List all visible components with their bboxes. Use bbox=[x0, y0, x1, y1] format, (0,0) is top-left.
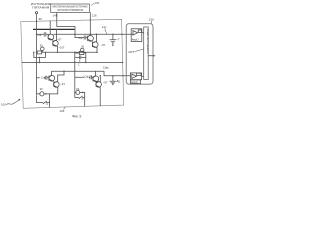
terminal 96 bbox=[35, 12, 37, 14]
junction (74.8,52.3) bbox=[74, 52, 76, 54]
capacitor 8 to ground bbox=[110, 76, 116, 84]
svg-text:~10Т: ~10Т bbox=[59, 45, 65, 49]
row2 collector rail bbox=[52, 71, 104, 76]
resistor box 10 bbox=[75, 52, 80, 54]
cell 4 : transistor VT2 bbox=[96, 82, 102, 88]
svg-text:ПИТАНИЯ: ПИТАНИЯ bbox=[32, 5, 49, 9]
junction (96.5,34.2) bbox=[96, 33, 98, 35]
svg-text:СИГНАЛОВ УПРАВЛЕНИЯ: СИГНАЛОВ УПРАВЛЕНИЯ bbox=[57, 9, 83, 12]
junction (39.6,57.5) bbox=[39, 57, 40, 58]
junction (39.6,62.5) bbox=[39, 62, 40, 63]
power source label bbox=[31, 2, 51, 9]
junction (112.9,34.2) bbox=[112, 33, 114, 35]
junction dots bbox=[33, 20, 124, 95]
junction (64,71.2) bbox=[63, 70, 65, 72]
svg-text:92: 92 bbox=[40, 87, 43, 91]
cell 3 : transistor VT bbox=[54, 82, 60, 88]
emitter bus row1 bbox=[37, 51, 98, 53]
svg-text:Сф: Сф bbox=[84, 75, 89, 79]
svg-text:126: 126 bbox=[92, 14, 97, 18]
resistor box K (series in bus) bbox=[37, 51, 41, 54]
svg-text:14у: 14у bbox=[102, 25, 107, 29]
bypass loop bbox=[34, 52, 46, 57]
divider branch vertical bbox=[74, 52, 76, 71]
svg-text:АмрО: АмрО bbox=[131, 81, 138, 84]
svg-text:Фиг. 9: Фиг. 9 bbox=[72, 115, 81, 119]
wire: amp B feed bbox=[104, 75, 130, 77]
svg-text:~9Т: ~9Т bbox=[101, 43, 106, 47]
mid rail drop bbox=[74, 71, 76, 94]
svg-text:134: 134 bbox=[94, 1, 99, 5]
junction (36.5,29.4) bbox=[36, 29, 38, 31]
junction (45.9,93.9) bbox=[45, 93, 47, 95]
cell 1 : transistor 97 bbox=[48, 34, 54, 40]
junction (112.9,75.8) bbox=[112, 75, 114, 77]
svg-text:100: 100 bbox=[1, 103, 6, 107]
junction (36.5,62.5) bbox=[36, 62, 38, 64]
junction (85.8,62.5) bbox=[85, 62, 86, 63]
junction (50.2,29.4) bbox=[49, 29, 51, 31]
svg-text:~97: ~97 bbox=[57, 37, 62, 41]
svg-text:~9Т: ~9Т bbox=[103, 80, 108, 84]
junction (75,34.2) bbox=[74, 33, 76, 35]
signal source box 134 bbox=[51, 4, 90, 13]
svg-text:МУХ: МУХ bbox=[129, 50, 135, 54]
svg-text:КОММУТАТОР КАНАЛОВ: КОММУТАТОР КАНАЛОВ bbox=[146, 29, 149, 54]
junction (36.5,21.25) bbox=[36, 21, 37, 22]
supply rail bbox=[34, 28, 75, 30]
wire: terminal down bbox=[36, 14, 38, 95]
junction (90.3,34.2) bbox=[90, 33, 92, 35]
cell 3 : bottom elbow C bbox=[37, 96, 50, 103]
junction (90.3,20.1) bbox=[90, 20, 91, 21]
junction (33.8,52.3) bbox=[33, 52, 34, 53]
svg-text:С: С bbox=[78, 63, 80, 66]
amp B bbox=[130, 73, 141, 80]
svg-text:96: 96 bbox=[39, 17, 43, 21]
tap to mid rail bbox=[39, 58, 41, 63]
base bus bbox=[37, 33, 134, 35]
junction (36.5,34.2) bbox=[36, 34, 37, 35]
cell 2 : transistor 9T bbox=[92, 42, 98, 48]
cell 1 : transistor 10T bbox=[53, 41, 59, 47]
junction (45.4,52.3) bbox=[45, 52, 46, 53]
wire: box134 drop at x90.5 bbox=[89, 13, 91, 36]
main block outline bbox=[21, 19, 124, 108]
cell 4 : bottom elbow C bbox=[75, 94, 85, 97]
capacitor 7 to ground bbox=[110, 34, 116, 45]
junction (74.8,71.2) bbox=[74, 71, 75, 72]
junction (100.3,75.8) bbox=[100, 75, 102, 77]
amp A bbox=[131, 29, 142, 42]
svg-text:Сфк: Сфк bbox=[103, 65, 109, 69]
svg-text:Сф: Сф bbox=[37, 33, 42, 37]
right block 130 bbox=[126, 24, 153, 84]
cell 4 : transistor VT bbox=[93, 76, 99, 82]
svg-text:130: 130 bbox=[149, 18, 154, 22]
commutator box bbox=[144, 27, 149, 80]
svg-text:МНОГОКАНАЛЬНЫЙ ИСТОЧНИК: МНОГОКАНАЛЬНЫЙ ИСТОЧНИК bbox=[53, 6, 89, 9]
svg-text:АмрО: АмрО bbox=[132, 39, 139, 42]
junction (36.5,52.3) bbox=[36, 52, 38, 54]
junction (57.4,52.3) bbox=[57, 52, 59, 54]
junction (82.7,92.4) bbox=[82, 92, 84, 94]
svg-text:102: 102 bbox=[60, 109, 65, 113]
svg-text:С: С bbox=[82, 97, 84, 101]
junction (74.8,62.5) bbox=[74, 62, 75, 63]
wire: box134 drop left bbox=[57, 13, 75, 35]
cell 3 : transistor 9T bbox=[49, 75, 55, 81]
svg-text:~9Т: ~9Т bbox=[60, 82, 65, 86]
junction (122.65,62.5) bbox=[122, 62, 123, 63]
junction (122.95,75.8) bbox=[122, 75, 124, 77]
cell 2 : transistor 117 bbox=[88, 35, 94, 41]
output arrow bbox=[148, 55, 154, 57]
svg-text:С: С bbox=[46, 102, 48, 106]
capacitor b bbox=[75, 56, 86, 59]
mid rail bbox=[22, 62, 123, 64]
junction (97,52.3) bbox=[96, 52, 98, 54]
junction (122,34.2) bbox=[121, 33, 123, 35]
junction (56.5,29.4) bbox=[56, 29, 58, 31]
feedback box bbox=[137, 73, 141, 75]
svg-text:~11: ~11 bbox=[116, 80, 121, 84]
svg-text:~7: ~7 bbox=[116, 38, 120, 42]
